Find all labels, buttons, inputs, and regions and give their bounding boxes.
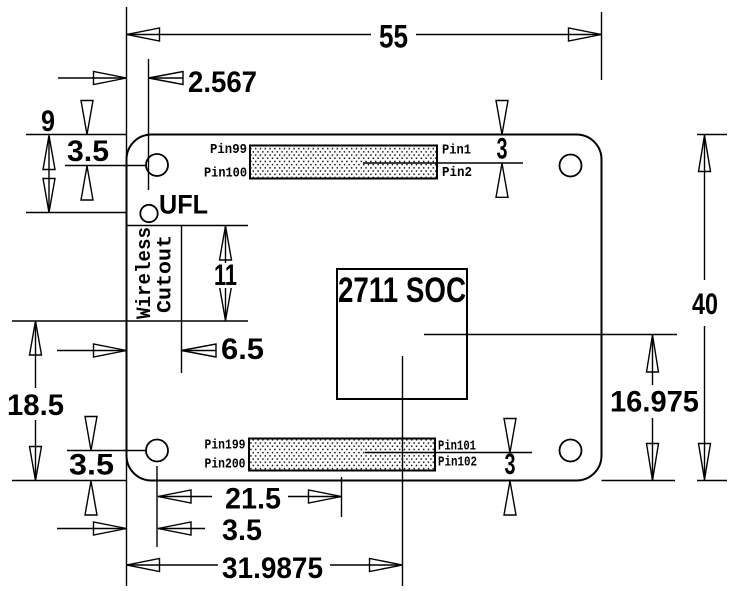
extension line: bottom-left hole centre [67, 450, 146, 452]
dimension 55 left arrow [127, 28, 160, 41]
extension line: left datum (full height) [126, 7, 128, 586]
dimension 31.9875 left arrow [127, 559, 160, 572]
extension line: 40 dim top tick [697, 134, 727, 136]
dimension 3.5 mid-left up arrow [85, 481, 97, 515]
dimension 3 bottom-right up arrow [504, 481, 516, 515]
dimension 2.567 left-pointing arrow with tail [149, 77, 184, 79]
dimension 11 up arrow [220, 226, 232, 260]
dimension 55 line [127, 34, 372, 36]
extension line: UFL x position [148, 59, 150, 190]
svg-text:Pin99: Pin99 [210, 142, 247, 158]
dimension 3.5 bottom tail line [57, 528, 127, 530]
dimension 18.5 down arrow [30, 447, 42, 481]
wireless cutout right edge [181, 226, 183, 374]
dimension 31.9875 line [127, 564, 219, 566]
dimension 40 down arrow [699, 444, 711, 480]
mounting hole bottom-left [146, 440, 168, 462]
dimension 21.5 line [158, 496, 212, 498]
svg-text:Pin199: Pin199 [205, 438, 246, 454]
svg-text:2.567: 2.567 [188, 66, 257, 99]
extension line: bottom-left hole vertical [156, 466, 158, 547]
dimension 3.5 top-left down arrow [81, 101, 93, 135]
dimension 2.567 tail line [58, 77, 127, 79]
svg-text:Pin200: Pin200 [205, 457, 246, 473]
svg-text:21.5: 21.5 [225, 483, 281, 516]
mounting hole bottom-right [560, 440, 582, 462]
dimension 55 right arrow [569, 28, 602, 41]
dimension 18.5 line [35, 321, 37, 388]
dimension 11 text [212, 263, 239, 288]
extension line: board bottom to right [602, 480, 676, 482]
dimension 3.5 mid-left down arrow [85, 417, 97, 451]
svg-text:31.9875: 31.9875 [222, 552, 323, 585]
svg-text:UFL: UFL [159, 190, 208, 220]
extension line: top-left hole centre [65, 165, 146, 167]
dimension 16.975 up arrow [647, 335, 659, 372]
svg-text:3: 3 [497, 133, 508, 166]
mounting hole top-left [146, 154, 168, 176]
svg-text:Pin1: Pin1 [442, 143, 471, 159]
svg-text:16.975: 16.975 [610, 386, 699, 419]
extension line: board bottom to left [12, 480, 127, 482]
svg-text:6.5: 6.5 [221, 333, 264, 366]
dimension 3.5 top-left up arrow [81, 166, 93, 200]
dimension 6.5 left-pointing arrow with tail [182, 350, 217, 352]
dimension 21.5 right arrow [309, 490, 342, 503]
svg-text:9: 9 [41, 105, 55, 138]
dimension 9 line [48, 136, 50, 213]
dimension 9 up arrow [43, 136, 55, 170]
board outline [127, 135, 602, 481]
wire: pin1 row reference line through top connector [363, 162, 523, 164]
svg-text:55: 55 [379, 19, 408, 55]
dimension 3 top-right up arrow [496, 163, 508, 197]
dimension 11 down arrow [220, 287, 232, 321]
dimension 9 down arrow [43, 179, 55, 213]
svg-text:40: 40 [692, 288, 718, 321]
dimension 3.5 bottom right-pointing arrow [94, 522, 127, 535]
extension line: right edge for 55 dim [601, 12, 603, 80]
dimension 3 bottom-right down arrow [504, 419, 516, 453]
svg-text:2711 SOC: 2711 SOC [338, 271, 466, 310]
dimension 6.5 right-pointing arrow [94, 344, 127, 357]
dimension 16.975 line [652, 335, 654, 385]
svg-text:11: 11 [214, 259, 237, 292]
extension line: board top to left [26, 134, 127, 136]
dimension 21.5 left arrow [158, 490, 191, 503]
extension line: UFL centre to left [26, 212, 127, 214]
svg-text:3.5: 3.5 [69, 449, 114, 482]
UFL connector circle [140, 205, 157, 222]
dimension 40 up arrow [699, 136, 711, 172]
svg-text:Pin102: Pin102 [438, 455, 477, 471]
dimension 3 top-right down arrow [496, 101, 508, 135]
dimension 16.975 down arrow [647, 444, 659, 481]
dimension 40 line [704, 135, 706, 281]
wire: SOC centre horizontal reference line [424, 334, 677, 336]
wireless cutout bottom edge / extension line [12, 320, 248, 322]
bottom connector (pins 199/200 to 101/102) hatched body [249, 439, 435, 471]
dimension 3.5 bottom left-pointing arrow with tail [158, 528, 205, 530]
extension line: 40 dim bottom tick [697, 480, 727, 482]
svg-text:3.5: 3.5 [222, 514, 262, 547]
wire: SOC centre vertical reference line [402, 356, 404, 586]
top connector (pins 99/100 to 1/2) hatched body [250, 146, 437, 179]
svg-text:Pin2: Pin2 [442, 165, 472, 181]
svg-text:3.5: 3.5 [67, 135, 109, 168]
dimension 18.5 up arrow [30, 321, 42, 355]
dimension 11 line [225, 226, 227, 321]
dimension 6.5 tail line [57, 350, 127, 352]
svg-text:18.5: 18.5 [7, 389, 64, 422]
dimension 31.9875 right arrow [370, 559, 403, 572]
svg-text:Cutout: Cutout [155, 235, 178, 313]
wire: pin101 row reference line through bottom connector [365, 452, 532, 454]
svg-text:Pin100: Pin100 [204, 166, 247, 182]
2711 SOC chip body [337, 269, 467, 399]
mounting hole top-right [560, 155, 582, 177]
svg-text:3: 3 [505, 448, 516, 481]
dimension 2.567 right-pointing arrow [94, 72, 127, 85]
wireless cutout top edge [127, 225, 249, 227]
extension line: 21.5 dim right end [341, 477, 343, 517]
